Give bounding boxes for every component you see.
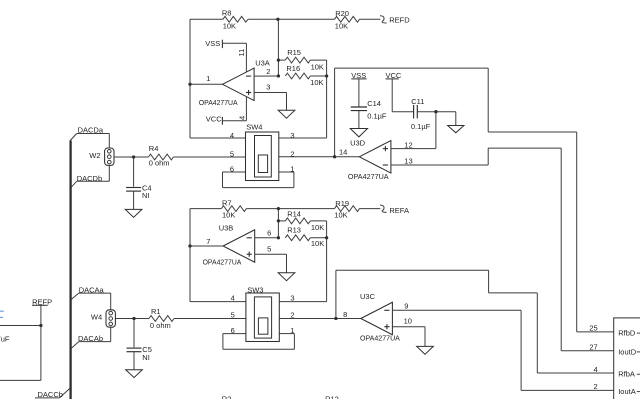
svg-text:R4: R4 xyxy=(149,144,159,153)
svg-text:10K: 10K xyxy=(310,78,323,87)
svg-text:SW4: SW4 xyxy=(246,123,262,132)
svg-text:6: 6 xyxy=(267,228,271,237)
svg-text:10K: 10K xyxy=(334,210,347,219)
svg-text:R16: R16 xyxy=(286,64,300,73)
svg-text:VCC: VCC xyxy=(206,115,222,124)
svg-text:SW3: SW3 xyxy=(247,285,263,294)
svg-text:W4: W4 xyxy=(91,313,102,322)
svg-text:R19: R19 xyxy=(335,199,349,208)
svg-text:OPA4277UA: OPA4277UA xyxy=(199,98,238,107)
svg-text:3: 3 xyxy=(266,83,270,92)
svg-text:4: 4 xyxy=(237,116,246,120)
svg-text:NI: NI xyxy=(142,353,150,362)
svg-text:10K: 10K xyxy=(222,210,235,219)
svg-text:27: 27 xyxy=(589,343,597,352)
svg-text:U3D: U3D xyxy=(350,138,366,147)
svg-text:4: 4 xyxy=(230,131,234,140)
svg-text:R1: R1 xyxy=(151,307,161,316)
svg-text:0 ohm: 0 ohm xyxy=(150,321,171,330)
svg-text:7: 7 xyxy=(206,237,210,246)
svg-text:R7: R7 xyxy=(222,198,232,207)
svg-text:OPA4277UA: OPA4277UA xyxy=(348,172,389,181)
svg-text:5: 5 xyxy=(231,310,235,319)
svg-text:R14: R14 xyxy=(287,209,301,218)
svg-text:10: 10 xyxy=(404,317,412,326)
svg-text:U3B: U3B xyxy=(219,224,234,233)
svg-text:0 ohm: 0 ohm xyxy=(149,159,170,168)
svg-text:2: 2 xyxy=(290,310,294,319)
svg-text:5: 5 xyxy=(267,245,271,254)
svg-text:DACCb: DACCb xyxy=(38,390,63,399)
svg-text:1: 1 xyxy=(206,74,210,83)
svg-text:11: 11 xyxy=(237,49,246,57)
svg-text:10K: 10K xyxy=(311,239,324,248)
svg-text:DACAb: DACAb xyxy=(78,334,103,343)
svg-text:U3C: U3C xyxy=(360,292,376,301)
svg-text:0.1µF: 0.1µF xyxy=(411,122,431,131)
svg-text:0.1µF: 0.1µF xyxy=(367,111,387,120)
svg-text:DACDa: DACDa xyxy=(78,125,104,134)
svg-text:10K: 10K xyxy=(311,63,324,72)
svg-text:R8: R8 xyxy=(222,9,232,18)
svg-text:10K: 10K xyxy=(335,21,348,30)
svg-text:1: 1 xyxy=(290,326,294,335)
svg-text:10K: 10K xyxy=(223,22,236,31)
svg-text:2: 2 xyxy=(594,382,598,391)
svg-text:REFA: REFA xyxy=(389,206,409,215)
svg-text:C11: C11 xyxy=(411,97,424,106)
svg-text:OPA4277UA: OPA4277UA xyxy=(360,333,400,342)
svg-text:5: 5 xyxy=(230,150,234,159)
svg-text:DACAa: DACAa xyxy=(79,286,105,295)
svg-text:REFD: REFD xyxy=(389,16,410,25)
svg-text:2: 2 xyxy=(290,150,294,159)
svg-text:4: 4 xyxy=(231,293,235,302)
svg-text:R12: R12 xyxy=(325,395,339,399)
svg-text:RfbA: RfbA xyxy=(618,370,635,379)
svg-text:10K: 10K xyxy=(311,223,324,232)
svg-text:R20: R20 xyxy=(335,9,349,18)
svg-text:OPA4277UA: OPA4277UA xyxy=(203,258,242,267)
svg-text:47uF: 47uF xyxy=(0,335,10,344)
svg-text:C14: C14 xyxy=(367,99,381,108)
svg-text:12: 12 xyxy=(404,140,412,149)
svg-text:NI: NI xyxy=(142,191,150,200)
svg-text:4: 4 xyxy=(594,365,598,374)
svg-text:U3A: U3A xyxy=(255,58,270,67)
svg-text:1: 1 xyxy=(290,164,294,173)
svg-text:8: 8 xyxy=(343,310,347,319)
svg-text:R2: R2 xyxy=(222,395,232,399)
svg-text:9: 9 xyxy=(404,302,408,311)
svg-text:6: 6 xyxy=(230,165,234,174)
svg-text:13: 13 xyxy=(404,157,412,166)
svg-text:R15: R15 xyxy=(287,48,301,57)
svg-text:3: 3 xyxy=(290,293,294,302)
svg-text:DACDb: DACDb xyxy=(77,174,102,183)
svg-text:IoutA: IoutA xyxy=(618,387,636,396)
svg-text:IoutD: IoutD xyxy=(618,347,637,356)
svg-text:VSS: VSS xyxy=(205,39,220,48)
svg-text:RfbD: RfbD xyxy=(618,329,636,338)
svg-text:2: 2 xyxy=(266,67,270,76)
svg-text:R13: R13 xyxy=(287,226,301,235)
svg-text:14: 14 xyxy=(339,147,347,156)
svg-text:W2: W2 xyxy=(89,151,100,160)
svg-text:6: 6 xyxy=(231,326,235,335)
svg-text:3: 3 xyxy=(290,131,294,140)
svg-text:25: 25 xyxy=(589,324,597,333)
